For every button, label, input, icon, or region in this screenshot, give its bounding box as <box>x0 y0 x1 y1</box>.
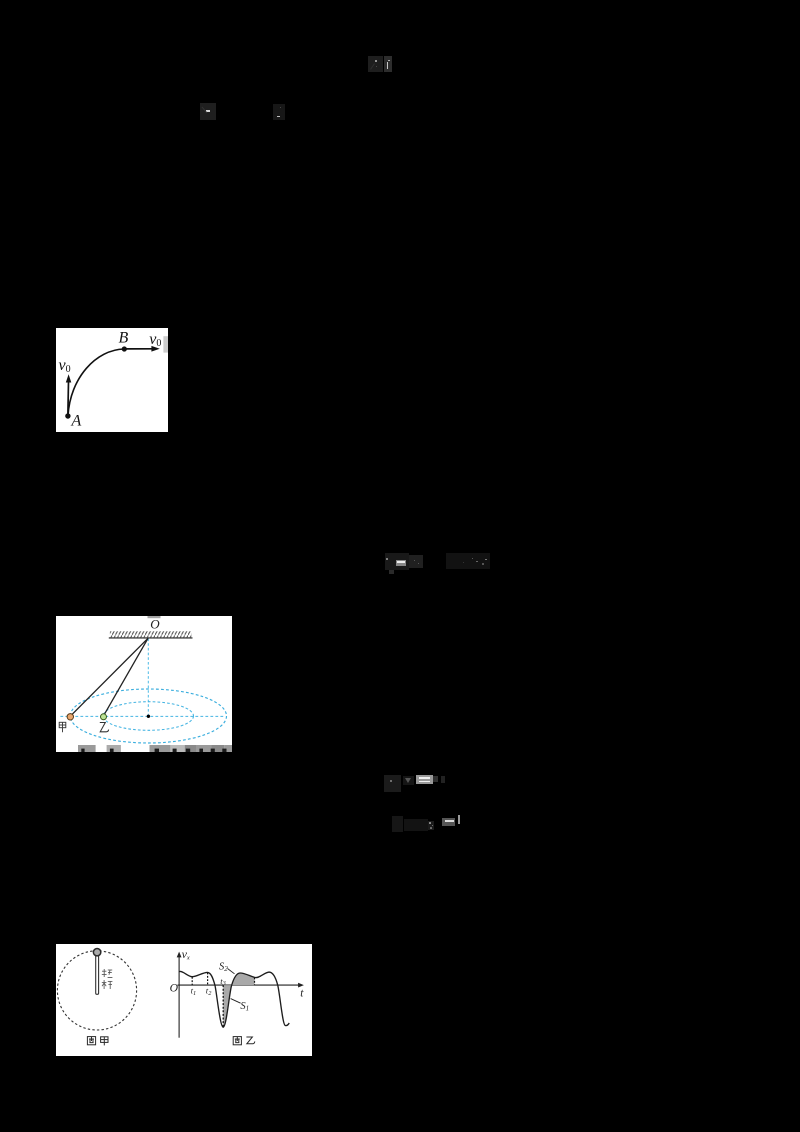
label 杆 <box>102 980 113 989</box>
svg-text:B: B <box>119 330 129 347</box>
figure 3: rod-ball circle (图甲) and vx-t graph (图乙) (white panel) <box>56 944 312 1056</box>
ceiling hatching <box>110 631 192 637</box>
faint formula image D (h = ...) <box>385 552 424 577</box>
ball 甲 (orange) <box>67 714 73 720</box>
dashed line at t2 <box>207 973 209 986</box>
leader + label S1 <box>231 999 250 1013</box>
ball on rod top <box>93 949 100 956</box>
dashed circular path <box>57 951 136 1030</box>
ceiling line <box>109 637 193 639</box>
faint formula image A right part <box>384 56 392 72</box>
faint formula image G <box>392 815 461 832</box>
cropped gray block at top edge <box>148 616 161 618</box>
label 轻 <box>102 969 113 977</box>
caption 图乙 <box>233 1037 255 1045</box>
faint formula image B <box>200 103 217 120</box>
figure 1: projectile from A to B (white panel) <box>56 328 168 432</box>
dashed line at t1 <box>191 977 193 985</box>
faint formula image E <box>446 553 490 570</box>
inner dashed ellipse (path of ball 乙) <box>103 702 193 731</box>
svg-text:t: t <box>300 987 304 999</box>
label 甲 <box>59 722 66 732</box>
velocity curve <box>179 971 289 1027</box>
cropped gray caption strip at bottom <box>78 745 232 752</box>
horizontal dashed diameter (cyan) <box>60 715 224 717</box>
v axis <box>177 952 182 1038</box>
string to ball 甲 <box>70 638 148 716</box>
cropped gray block at right edge <box>163 336 168 352</box>
faint formula image A (top center) <box>368 56 384 72</box>
svg-text:v0: v0 <box>59 357 71 375</box>
svg-text:A: A <box>71 413 82 430</box>
outer dashed ellipse (path of ball 甲) <box>70 689 226 743</box>
dashed line at t3 (into S1) <box>222 985 224 1026</box>
velocity arrow v0 at B <box>124 346 160 352</box>
leader + label S2 <box>219 962 235 974</box>
point A <box>65 413 70 418</box>
point B <box>122 346 127 351</box>
svg-text:S2: S2 <box>219 962 228 974</box>
label 乙 <box>100 723 109 732</box>
faint formula image C <box>273 104 285 121</box>
svg-text:O: O <box>170 981 179 994</box>
string to ball 乙 <box>103 638 148 716</box>
dashed right edge of S2 <box>254 978 256 986</box>
t axis <box>178 983 304 988</box>
svg-text:t1: t1 <box>191 986 197 997</box>
figure 2: conical pendulum (white panel) <box>56 616 232 752</box>
svg-text:v0: v0 <box>149 331 161 349</box>
svg-text:vx: vx <box>182 947 190 961</box>
velocity arrow v0 at A <box>66 374 72 413</box>
ball 乙 (green) <box>101 714 107 720</box>
svg-text:S1: S1 <box>240 1001 249 1013</box>
trajectory curve A to B <box>68 349 124 416</box>
center dot <box>147 715 150 718</box>
shaded region S2 (above axis) <box>232 973 255 985</box>
faint formula image F (omega = ...) <box>384 775 445 792</box>
vertical dashed axis (cyan) <box>147 639 149 716</box>
svg-text:t2: t2 <box>206 986 212 997</box>
caption 图甲 <box>87 1037 108 1046</box>
light rod <box>96 955 99 995</box>
shaded region S1 (below axis) <box>223 985 231 1027</box>
svg-text:t3: t3 <box>220 976 226 987</box>
svg-text:O: O <box>150 616 160 631</box>
